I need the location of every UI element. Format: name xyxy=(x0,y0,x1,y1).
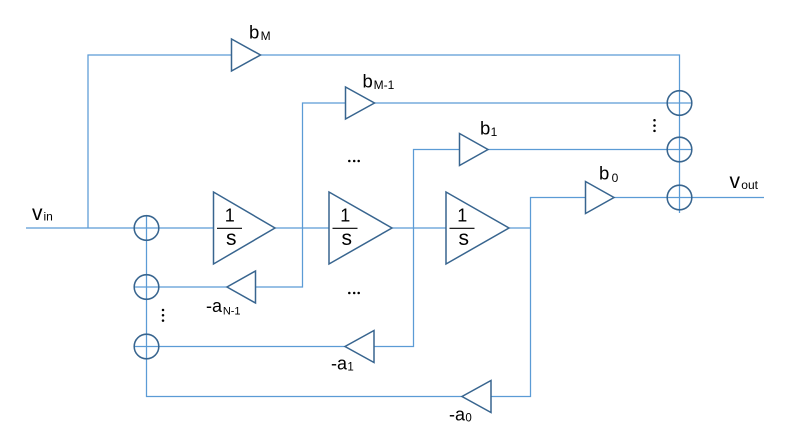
gain amplifier bM-1 xyxy=(346,87,375,119)
label 1/s of integrator U1 xyxy=(217,206,242,250)
wire: gain b0 output through summer S6 to v_out xyxy=(614,197,764,199)
gain amplifier -aN-1 (feedback, points left) xyxy=(227,271,256,303)
wire: gain b1 output to summer S5 xyxy=(488,149,692,151)
gain amplifier -a1 (feedback, points left) xyxy=(345,331,374,363)
svg-text:vin: vin xyxy=(32,202,53,225)
summer S6 (b0 output summing junction, v_out node) xyxy=(667,185,692,210)
summer S2 (-aN-1 feedback summing junction) xyxy=(134,275,159,300)
svg-text:-a1: -a1 xyxy=(331,353,354,373)
wire: integrator U2 output to integrator U3 xyxy=(392,227,446,229)
svg-text:s: s xyxy=(226,227,237,250)
svg-text:bM-1: bM-1 xyxy=(363,71,395,93)
svg-text:1: 1 xyxy=(340,206,350,226)
gain amplifier b0 xyxy=(586,182,615,214)
gain amplifier b1 xyxy=(460,134,489,166)
svg-text:-a0: -a0 xyxy=(449,405,472,425)
wire: v_in input line into summer S1 and integrator U1 xyxy=(26,227,214,229)
integrator U1 (1/s) xyxy=(214,192,276,264)
summer S4 (bM / bM-1 output summing junction) xyxy=(667,91,692,116)
wire: node X(N-1) riser, across to gain bM-1 and down to gain -aN-1 xyxy=(256,103,346,287)
summer S3 (-a1 feedback summing junction) xyxy=(134,334,159,359)
svg-text:b0: b0 xyxy=(599,163,619,185)
wire: summer S3 to gain -a1 tip xyxy=(134,346,345,348)
wire: gain bM-1 output to summer S4 xyxy=(375,102,692,104)
wire: node X0 riser, across to gain b0, and -a0 return drop xyxy=(491,198,586,397)
wire: summer S2 to gain -aN-1 tip xyxy=(134,286,227,288)
ellipsis: feedforward rows (horizontal dots) xyxy=(348,160,360,163)
ellipsis: left summer column (vertical dots) xyxy=(162,309,165,322)
svg-text:bM: bM xyxy=(249,22,271,44)
ellipsis: feedback rows (horizontal dots) xyxy=(348,292,360,295)
svg-text:b1: b1 xyxy=(480,117,498,139)
svg-text:s: s xyxy=(458,227,469,250)
svg-text:-aN-1: -aN-1 xyxy=(206,296,241,317)
gain amplifier -a0 (feedback, points left) xyxy=(462,381,491,413)
svg-text:1: 1 xyxy=(457,206,467,226)
summer S5 (b1 output summing junction) xyxy=(667,137,692,162)
wire: b_M feedforward takeoff (up from input node, across to gain bM) xyxy=(88,55,232,228)
wire: integrator U3 output to node X0 xyxy=(509,227,531,229)
wire: left summing column vertical with -a0 return run xyxy=(147,216,463,397)
wire: integrator U1 output to integrator U2 xyxy=(275,227,329,229)
integrator U3 (1/s) xyxy=(446,192,509,264)
svg-text:vout: vout xyxy=(730,170,759,193)
svg-text:s: s xyxy=(341,227,352,250)
svg-text:1: 1 xyxy=(225,206,235,226)
label 1/s of integrator U2 xyxy=(333,206,358,250)
wire: gain bM output across to right column and down through summers xyxy=(261,55,680,213)
ellipsis: right summer column (vertical dots) xyxy=(653,119,656,132)
integrator U2 (1/s) xyxy=(329,192,392,264)
label 1/s of integrator U3 xyxy=(450,206,475,250)
gain amplifier bM xyxy=(232,39,261,71)
summer S1 (input summing junction) xyxy=(134,216,159,241)
wire: node X1 riser, across to gain b1 and down to gain -a1 xyxy=(374,150,460,347)
